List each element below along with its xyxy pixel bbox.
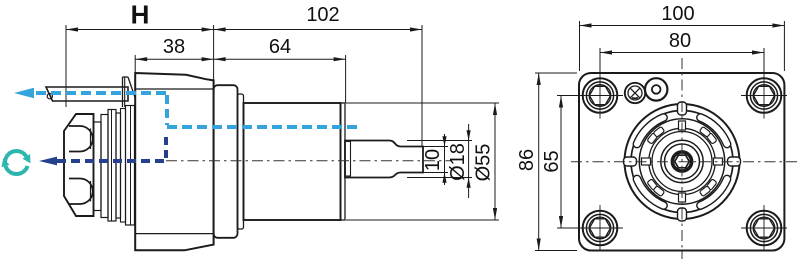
spindle nose ring G [126,106,135,226]
dim line 10 [444,134,446,185]
hub outer circle [625,104,740,219]
bolt hole TL [583,78,618,113]
svg-text:H: H [131,0,150,30]
spindle nose ring A [94,122,102,211]
spindle nose ring E [116,113,121,218]
ER collet nut [64,114,94,216]
navy vertical [164,137,168,159]
svg-text:38: 38 [163,36,185,58]
small pin hole [645,78,667,100]
shank chamfer collar [345,142,351,177]
svg-text:102: 102 [306,4,339,26]
coolant inlet line (light blue) [167,125,357,129]
centre line left view [166,160,452,162]
coolant centre line (navy) [57,137,166,161]
H arrows [66,27,78,31]
svg-text:80: 80 [669,30,691,52]
navy arrow [39,157,57,166]
centre lines right view [571,161,798,163]
labels left view [131,0,495,181]
step ring 1 [214,85,238,238]
rotation symbol (teal) [5,151,28,174]
nut wrench slot top [69,126,93,152]
ext lines cylinder Ø55 [346,102,499,104]
cylinder end face [341,103,346,220]
hex socket [675,155,690,168]
hub third circle [639,119,724,204]
svg-text:Ø18: Ø18 [447,143,469,181]
housing base line [135,233,213,235]
nozzle insert circle [47,94,52,99]
coolant line out top (light blue) [36,93,357,127]
drive shank Ø18 with tang slot [345,141,423,178]
38 arrows [135,57,147,61]
diagonal inner pills on third circle [647,126,717,196]
step ring 2 [238,94,244,229]
spindle nose ring F [121,109,126,223]
cardinal notches [642,121,723,202]
svg-text:100: 100 [661,3,694,25]
dim line 86 [538,73,540,251]
svg-text:86: 86 [516,149,538,171]
102 arrows [214,27,226,31]
dim line 100 [580,25,785,27]
ext lines shank Ø18 [407,140,472,142]
coolant pipe fitting block [122,77,124,107]
small screw with cross slot [625,78,668,103]
coolant vertical light blue [165,95,169,125]
bolt hole BR [747,211,782,246]
svg-text:10: 10 [422,149,444,171]
ext lines slot flanks [423,146,448,148]
dim line 64 [214,58,346,60]
coolant pipe nozzle [46,87,128,101]
10 arrows [442,136,446,146]
dim line Ø18 [468,124,470,198]
inner rings [649,128,715,194]
arc slots (diagonals) [637,118,727,206]
coolant arrow top [14,88,34,99]
Ø55 arrows [493,103,497,115]
dim line 80 [600,52,764,54]
spindle nose ring B [101,115,108,218]
spindle nose grooved ring C [108,110,116,222]
housing lid line [135,88,213,90]
centre boss [672,152,691,171]
outer cardinal tabs [624,102,741,221]
bolt hole BL [583,211,618,246]
extension line housing rear [213,25,215,80]
corner bolt holes [577,73,787,252]
dim line 38 [135,58,213,60]
main cylinder Ø55 [244,103,341,220]
svg-text:64: 64 [269,36,291,58]
Ø18 arrows [467,130,471,140]
nut wrench slot bottom [69,179,93,205]
dim line H [66,29,214,31]
flange plate [579,73,784,251]
extension line shank tip [421,25,423,147]
hub second circle [631,111,733,213]
dim line Ø55 [494,103,496,220]
extension line at nut face [65,25,67,107]
arrowheads left view [66,27,497,220]
extension line housing front [134,55,136,72]
bolt hole TR [747,78,782,113]
gearbox housing [135,73,213,250]
extension line cylinder end [345,55,347,103]
64 arrows [214,57,226,61]
svg-text:65: 65 [541,150,563,172]
dim line 102 [214,29,422,31]
svg-text:Ø55: Ø55 [472,144,494,182]
dim line 65 [560,96,562,229]
